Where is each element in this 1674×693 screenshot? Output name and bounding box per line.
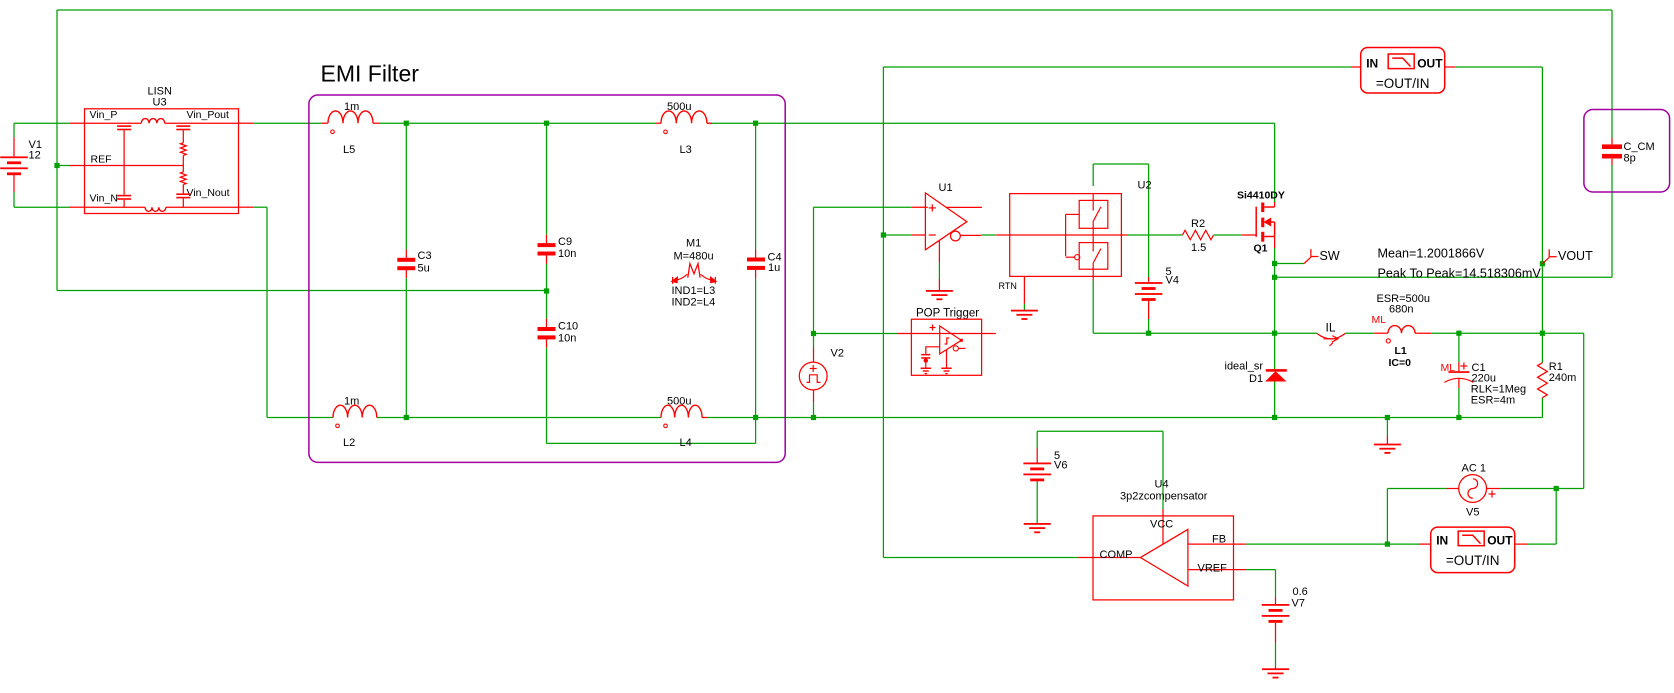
svg-text:Peak To Peak=14.518306mV: Peak To Peak=14.518306mV: [1378, 266, 1542, 280]
switch block U2 outline: [1010, 194, 1122, 277]
wire rail to AC loop corner: [1542, 332, 1583, 334]
svg-text:V7: V7: [1292, 598, 1305, 610]
wire D1 vertical: [1274, 333, 1276, 369]
capacitor C10: [538, 327, 556, 331]
junction U1 minus input: [881, 232, 886, 237]
svg-text:1m: 1m: [344, 396, 359, 408]
svg-text:L5: L5: [343, 144, 355, 156]
svg-text:Vin_P: Vin_P: [90, 109, 118, 121]
svg-text:V5: V5: [1466, 507, 1479, 519]
junction VOUT/R1 on rail: [1540, 331, 1545, 336]
LISN internal capacitor bottom-right: [176, 193, 190, 195]
svg-text:0.6: 0.6: [1293, 586, 1308, 598]
svg-text:POP Trigger: POP Trigger: [916, 308, 979, 320]
diode D1 ideal_sr: [1266, 369, 1287, 372]
junction SW to C_CM wire: [1272, 275, 1277, 280]
svg-text:SW: SW: [1320, 249, 1340, 263]
current probe IL: [1317, 333, 1345, 339]
wire U1 minus junction: [883, 234, 911, 236]
wire V2 plus node to U1 + input: [813, 334, 815, 348]
LISN internal REF rail: [85, 165, 184, 167]
LISN internal bottom wire with inductor: [85, 206, 146, 208]
junction SW node: [1272, 261, 1277, 266]
wire V2 minus to bottom rail: [813, 402, 815, 417]
junction output ground: [1385, 415, 1390, 420]
svg-text:U4: U4: [1155, 479, 1169, 491]
wire U2 output to R2: [1128, 234, 1183, 236]
svg-text:ML: ML: [1441, 362, 1456, 374]
svg-text:500u: 500u: [667, 396, 691, 408]
junction C9 top: [544, 121, 549, 126]
svg-text:U2: U2: [1138, 180, 1152, 192]
AC source V5: [1447, 488, 1459, 490]
svg-text:12: 12: [29, 150, 41, 162]
junction V5 minus / IN probe / FB: [1385, 542, 1390, 547]
wire ground stub below rail: [1386, 418, 1388, 437]
EMI Filter annotation box: [309, 95, 785, 462]
wire C4 vertical: [755, 123, 757, 249]
U2 control network: [1065, 214, 1067, 256]
wire L5 to C3/C9 junctions: [380, 122, 547, 124]
svg-text:U3: U3: [153, 97, 167, 109]
junction L4/C4 bottom: [753, 415, 758, 420]
junction C9/C10 midpoint: [544, 288, 549, 293]
svg-text:Vin_N: Vin_N: [90, 192, 118, 204]
wire Vin_Pout to EMI filter L5 (top input rail): [253, 122, 322, 124]
U2 RTN pin and ground: [1023, 276, 1025, 304]
svg-text:=OUT/IN: =OUT/IN: [1446, 553, 1500, 568]
svg-text:V2: V2: [831, 348, 844, 360]
svg-text:Mean=1.2001866V: Mean=1.2001866V: [1378, 247, 1485, 261]
wire C3 top/bottom verticals: [405, 123, 407, 249]
wire FB net to lower IN probe: [1246, 543, 1387, 545]
battery V4: [1135, 282, 1163, 284]
svg-text:D1: D1: [1249, 373, 1263, 385]
svg-text:10n: 10n: [558, 333, 576, 345]
resistor R2: [1183, 230, 1214, 240]
svg-text:IL: IL: [1326, 321, 1336, 335]
LISN internal top wire with inductor: [85, 122, 142, 124]
wire top probe OUT to VOUT vertical: [1456, 66, 1543, 68]
LISN pin REF: [70, 165, 85, 167]
svg-text:3p2zcompensator: 3p2zcompensator: [1120, 491, 1208, 503]
resistor R1: [1538, 363, 1548, 398]
capacitor C_CM: [1611, 138, 1613, 144]
svg-text:OUT: OUT: [1487, 534, 1513, 548]
svg-text:L3: L3: [680, 144, 692, 156]
LISN pin Vin_Nout: [239, 206, 254, 208]
bode probe =OUT/IN (top): [1351, 66, 1361, 68]
junction V4 minus on source rail: [1146, 331, 1151, 336]
svg-text:VREF: VREF: [1198, 563, 1228, 575]
junction Q1 source / L1 rail: [1272, 331, 1277, 336]
wire VREF to V7: [1246, 569, 1275, 571]
pulse source V2: [813, 348, 815, 363]
inductor L2: [332, 417, 334, 419]
svg-text:OUT: OUT: [1417, 57, 1443, 71]
LISN internal capacitor bottom-left: [117, 195, 131, 197]
U2 upper switch: [1079, 200, 1108, 228]
MOSFET Q1 Si4410DY: [1242, 234, 1257, 236]
junction L5/C3 top: [404, 121, 409, 126]
svg-text:1.5: 1.5: [1191, 242, 1206, 254]
wire L1 rail to C1 and R1/VOUT: [1275, 332, 1317, 334]
capacitor C4: [747, 258, 765, 262]
wire SW node stub: [1275, 263, 1305, 265]
svg-text:EMI Filter: EMI Filter: [321, 61, 420, 87]
junction V2 minus on bottom rail: [811, 415, 816, 420]
junction C1 bottom: [1456, 415, 1461, 420]
svg-text:COMP: COMP: [1100, 549, 1133, 561]
battery V7: [1275, 597, 1277, 604]
wire R1 vertical / VOUT: [1541, 67, 1543, 333]
svg-text:C9: C9: [558, 236, 572, 248]
wire V2 plus node to POP trigger: [814, 333, 898, 335]
svg-text:IN: IN: [1436, 534, 1448, 548]
capacitor C3: [397, 258, 415, 262]
wire REF junction to LISN REF pin: [57, 165, 70, 167]
wire source rail U2 to V4 to Q1 source: [1093, 332, 1274, 334]
wire U2 lower switch to source rail: [1092, 281, 1094, 334]
bode probe =OUT/IN (bottom): [1419, 543, 1431, 545]
wire bottom rail D1 to ground, C1, R1: [1275, 417, 1543, 419]
svg-text:1m: 1m: [344, 101, 359, 113]
ground below output rail: [1386, 436, 1388, 445]
svg-text:L2: L2: [343, 437, 355, 449]
wire V4 minus to rail: [1148, 319, 1150, 333]
LISN internal resistor upper-right: [180, 143, 186, 156]
wire V6 to U4 VCC: [1036, 431, 1038, 448]
ground below U1: [926, 290, 953, 292]
junction L1/C1: [1456, 331, 1461, 336]
svg-text:M1: M1: [686, 238, 701, 250]
wire R2 to Q1 gate: [1214, 234, 1242, 236]
op-amp U1 ground lead: [938, 241, 940, 263]
wire bottom rail L2 to L4 inside EMI filter: [377, 417, 661, 419]
wire U2 upper switch to V4 plus loop: [1092, 164, 1094, 186]
svg-text:M=480u: M=480u: [674, 251, 714, 263]
LISN pin Vin_Pout: [239, 122, 254, 124]
inductor L5: [322, 122, 328, 124]
annotation box around C_CM: [1584, 110, 1670, 193]
wire U1 output to U2: [981, 234, 996, 236]
capacitor C9: [538, 243, 556, 247]
junction D1 anode on bottom rail: [1272, 415, 1277, 420]
svg-text:REF: REF: [91, 153, 112, 165]
svg-text:FB: FB: [1212, 534, 1226, 546]
svg-text:C3: C3: [418, 250, 432, 262]
wire V4 plus stub: [1148, 277, 1150, 282]
U4 VCC pin: [1162, 509, 1164, 544]
svg-text:IC=0: IC=0: [1389, 357, 1412, 369]
U2 lower switch: [1079, 243, 1108, 270]
svg-text:1u: 1u: [768, 262, 780, 274]
ground below V6: [1024, 523, 1051, 525]
LISN internal capacitor top-right: [176, 125, 190, 127]
svg-text:10n: 10n: [558, 248, 576, 260]
svg-text:C_CM: C_CM: [1624, 141, 1655, 153]
junction L3/C4 top: [753, 121, 758, 126]
svg-text:8p: 8p: [1624, 153, 1636, 165]
node SW marker: [1304, 257, 1311, 263]
LISN internal capacitor top-left: [117, 125, 131, 127]
U4 internal amplifier triangle: [1140, 529, 1188, 586]
svg-text:VCC: VCC: [1150, 519, 1173, 531]
junction V2 plus node: [811, 331, 816, 336]
node VOUT marker: [1542, 257, 1549, 263]
junction REF at left vertical: [54, 163, 59, 168]
battery V6: [1036, 448, 1038, 463]
svg-text:5u: 5u: [418, 263, 430, 275]
svg-text:RTN: RTN: [999, 281, 1017, 291]
U4 FB pin: [1188, 543, 1246, 545]
inductor L3: [656, 122, 661, 124]
wire bottom rail from EMI filter L4 to V2 and D1: [756, 417, 1275, 419]
svg-text:240m: 240m: [1549, 372, 1577, 384]
wire COMP input: [883, 557, 1078, 559]
wire V6 minus to ground: [1036, 482, 1038, 524]
battery V1: [13, 138, 15, 157]
svg-text:680n: 680n: [1389, 304, 1413, 316]
wire V1 plus to LISN Vin_P: [14, 122, 70, 124]
junction V5 plus / OUT probe: [1554, 486, 1559, 491]
capacitor C1 polarized: [1458, 362, 1460, 371]
svg-text:IND2=L4: IND2=L4: [672, 297, 716, 309]
wire V1 minus to LISN Vin_N: [13, 192, 15, 207]
svg-text:500u: 500u: [667, 101, 691, 113]
inductor L4: [661, 405, 702, 417]
U4 VREF pin: [1188, 569, 1246, 571]
LISN pin Vin_N: [70, 206, 85, 208]
LISN pin Vin_P: [70, 122, 85, 124]
svg-text:V4: V4: [1166, 275, 1179, 287]
junction L2/C3 bottom: [404, 415, 409, 420]
svg-text:AC 1: AC 1: [1462, 463, 1486, 475]
wire C9 junction to L3: [547, 122, 657, 124]
LISN block U3 outline: [85, 109, 239, 214]
svg-text:VOUT: VOUT: [1558, 249, 1593, 263]
svg-text:ideal_sr: ideal_sr: [1225, 361, 1264, 373]
svg-text:Q1: Q1: [1254, 243, 1268, 255]
wire U1 ground link: [938, 263, 940, 279]
svg-text:IN: IN: [1366, 57, 1378, 71]
op-amp U1: [912, 206, 928, 208]
svg-text:L4: L4: [680, 437, 692, 449]
svg-text:ML: ML: [1372, 314, 1387, 326]
svg-text:V6: V6: [1054, 460, 1067, 472]
wire Vin_Nout down to EMI filter L2: [253, 206, 267, 208]
U4 COMP pin: [1078, 557, 1140, 559]
svg-text:Vin_Pout: Vin_Pout: [187, 109, 230, 121]
svg-text:ESR=4m: ESR=4m: [1471, 394, 1515, 406]
svg-text:=OUT/IN: =OUT/IN: [1376, 76, 1430, 91]
ground below V7: [1275, 666, 1277, 669]
wire C9 vertical: [546, 123, 548, 235]
svg-text:IND1=L3: IND1=L3: [672, 285, 716, 297]
wire Q1 source to SW node and L1 rail: [1274, 248, 1276, 333]
wire C1 vertical: [1458, 333, 1460, 362]
wire C10 vertical and detour to L4 junction: [546, 291, 548, 319]
LISN internal resistor lower-right: [180, 172, 186, 185]
svg-text:U1: U1: [939, 182, 953, 194]
wire L3 to C4 junction, exits EMI filter to Q1 drain: [707, 122, 1275, 124]
svg-text:Vin_Nout: Vin_Nout: [187, 187, 230, 199]
wire V5 loop: [1387, 488, 1446, 490]
svg-text:R2: R2: [1191, 218, 1205, 230]
U2 through wire: [996, 234, 1127, 236]
inductor L1: [1374, 332, 1388, 334]
svg-text:C10: C10: [558, 321, 578, 333]
wire feedback vertical COMP to U1 minus and IN probe: [882, 67, 884, 558]
junction VOUT marker: [1540, 261, 1545, 266]
svg-text:L1: L1: [1395, 345, 1407, 357]
wire top chassis loop (REF to C_CM): [57, 9, 1612, 11]
mutual inductance M1: [688, 264, 700, 278]
svg-text:Si4410DY: Si4410DY: [1237, 189, 1285, 201]
